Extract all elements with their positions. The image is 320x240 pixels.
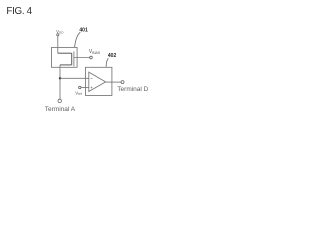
transistor M1 gate line	[73, 51, 75, 66]
terminal VREF circle	[79, 86, 81, 88]
wire drain down to node A	[59, 65, 61, 100]
terminal D circle	[121, 81, 124, 84]
svg-text:401: 401	[79, 28, 88, 34]
svg-text:Terminal D: Terminal D	[117, 86, 148, 93]
op-amp U402 triangle	[89, 72, 106, 91]
svg-text:FIG. 4: FIG. 4	[6, 6, 32, 17]
wire VDD to block 401	[57, 36, 59, 53]
op-amp minus sign	[91, 77, 93, 79]
terminal A circle	[58, 99, 61, 102]
svg-text:Vref: Vref	[75, 91, 82, 97]
comparator 402 box	[86, 67, 112, 95]
current source block 401 box	[52, 47, 78, 67]
leader line 402	[106, 58, 108, 67]
terminal VDD circle	[57, 34, 59, 36]
op-amp plus sign	[91, 87, 93, 89]
svg-text:402: 402	[108, 53, 117, 59]
wire gate to VBIAS terminal	[74, 57, 90, 59]
svg-text:Terminal A: Terminal A	[45, 106, 76, 113]
transistor M1 channel line	[71, 53, 73, 65]
leader line 401	[75, 32, 81, 47]
terminal VBIAS circle	[90, 56, 93, 59]
output wire to terminal D	[106, 81, 121, 83]
transistor M1 drain bar	[60, 64, 72, 66]
transistor M1 source bar	[58, 52, 72, 54]
wire node to comparator inverting input	[60, 77, 89, 79]
svg-text:VBIAS: VBIAS	[89, 49, 101, 55]
wire VREF to comparator non-inverting input	[81, 87, 89, 89]
node junction dot	[59, 77, 61, 79]
